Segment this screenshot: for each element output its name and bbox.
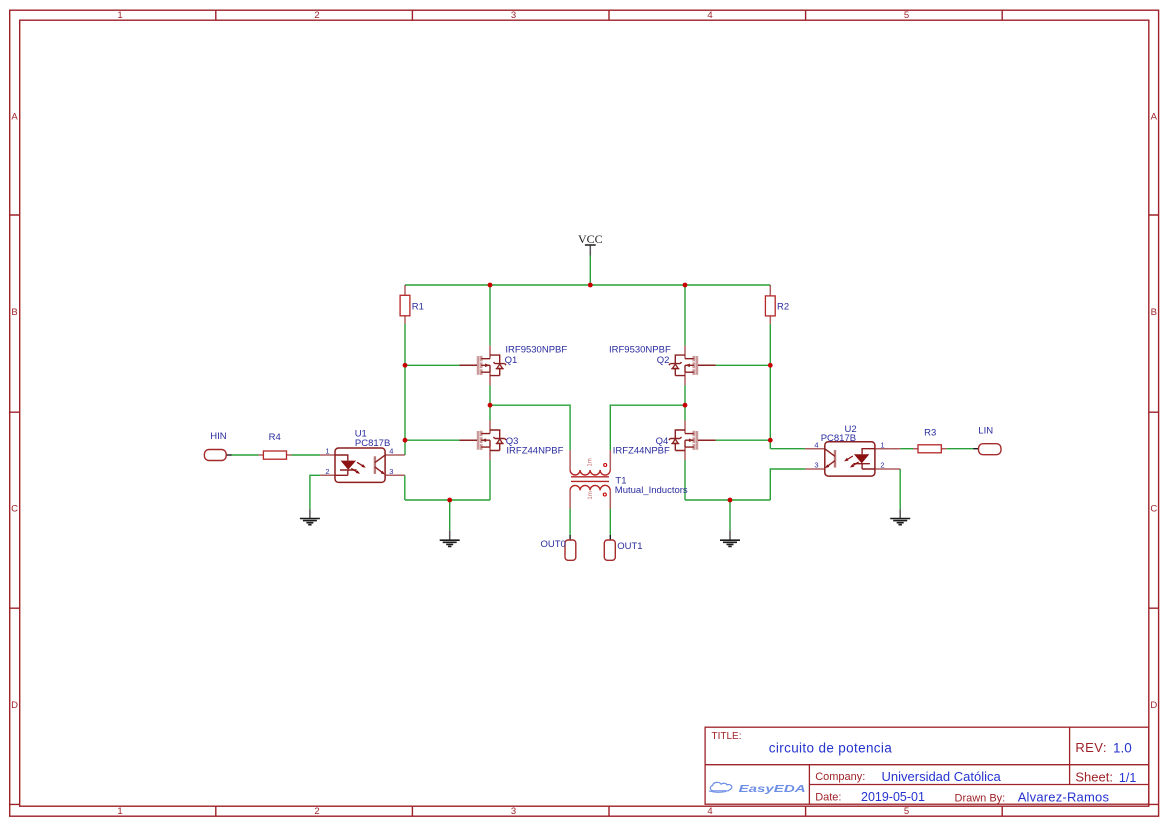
ruler ticks top (216, 10, 1002, 20)
svg-text:HIN: HIN (210, 431, 227, 442)
wire Q3 source down (489, 460, 491, 500)
wire U1 pin3 drop (404, 475, 406, 500)
ruler letters right (1150, 112, 1157, 711)
svg-text:5: 5 (904, 806, 909, 817)
connector pin OUT0 (541, 535, 576, 560)
svg-text:D: D (1150, 700, 1157, 711)
svg-text:2: 2 (325, 467, 329, 476)
wire U2 pin3 route (770, 469, 805, 500)
wire Q2 gate (716, 364, 771, 366)
Q3 labels (506, 436, 564, 457)
Q1 labels (505, 345, 568, 366)
ruler letters left (11, 112, 18, 711)
ground (U1 pin2) (300, 509, 320, 525)
svg-text:2: 2 (880, 461, 884, 470)
svg-text:3: 3 (511, 10, 516, 21)
svg-text:LIN: LIN (978, 426, 993, 437)
wire Q2 source to node (684, 385, 686, 405)
transistor Q2 IRF9530NPBF (P-MOSFET, mirrored) (669, 346, 716, 386)
wire T1 to OUT1 (609, 509, 611, 536)
wire R4 to U1 pin1 (292, 454, 321, 456)
connector pin OUT1 (604, 535, 642, 560)
svg-text:1/1: 1/1 (1119, 771, 1136, 785)
ruler ticks right (1149, 215, 1159, 804)
svg-text:Drawn By:: Drawn By: (955, 793, 1006, 805)
svg-text:1m: 1m (588, 458, 594, 466)
svg-text:1.0: 1.0 (1113, 740, 1132, 755)
U1 pin numbers (325, 447, 393, 476)
wire left mid ground stem (449, 500, 451, 530)
wire node to T1 left (490, 405, 570, 450)
svg-text:4: 4 (707, 806, 712, 817)
junction node VCC feed (588, 283, 593, 288)
ruler numbers bottom (117, 806, 909, 817)
svg-text:A: A (1151, 112, 1158, 123)
svg-text:IRFZ44NPBF: IRFZ44NPBF (613, 445, 670, 456)
wire Q2 drain drop (684, 285, 686, 346)
ground (U2 pin2) (890, 509, 910, 525)
svg-text:1: 1 (117, 806, 122, 817)
transistor Q3 IRFZ44NPBF (N-MOSFET) (460, 421, 507, 461)
svg-text:IRFZ44NPBF: IRFZ44NPBF (506, 445, 563, 456)
svg-text:PC817B: PC817B (821, 433, 856, 444)
U2 pin numbers (814, 440, 884, 469)
svg-text:4: 4 (814, 440, 818, 449)
op-amp U2 PC817B optocoupler (mirrored) (805, 442, 890, 476)
wire HIN to R4 (231, 454, 258, 456)
svg-text:B: B (1151, 307, 1157, 318)
svg-text:EasyEDA: EasyEDA (739, 784, 806, 795)
wire VCC stub (589, 255, 591, 285)
wire left rail R1 to U1 pin4 (404, 324, 406, 455)
wire right rail R2 down (769, 324, 771, 449)
wire Q1 drain drop (489, 285, 491, 346)
svg-text:Date:: Date: (815, 791, 841, 803)
junction node R1/Q1 gate (403, 363, 408, 368)
wire Q4 gate (716, 439, 771, 441)
wire T1 to OUT0 (569, 509, 571, 536)
wire Q3 gate (405, 439, 460, 441)
transistor Q1 IRF9530NPBF (P-MOSFET) (460, 346, 507, 386)
wire Q1 source to node (489, 385, 491, 405)
wire node to Q3 drain (489, 405, 491, 420)
svg-text:circuito de potencia: circuito de potencia (769, 741, 892, 756)
svg-text:1m: 1m (588, 491, 594, 499)
svg-text:OUT0: OUT0 (541, 539, 566, 550)
svg-text:VCC: VCC (578, 232, 603, 246)
svg-text:Company:: Company: (815, 771, 865, 783)
junction node Q4 gate / U2 pin4 (768, 438, 773, 443)
svg-text:5: 5 (904, 10, 909, 21)
svg-text:Mutual_Inductors: Mutual_Inductors (615, 485, 688, 496)
op-amp U1 PC817B optocoupler (320, 448, 405, 482)
vcc power symbol (578, 232, 603, 256)
ground (left mid) (440, 530, 460, 546)
svg-text:1: 1 (325, 447, 329, 456)
EasyEDA logo (709, 782, 806, 795)
connector pin HIN (204, 431, 231, 461)
svg-text:R4: R4 (269, 432, 281, 443)
svg-text:3: 3 (814, 461, 818, 470)
svg-text:C: C (1150, 504, 1157, 515)
U2 labels (821, 424, 857, 444)
wire top VCC rail (231, 255, 973, 535)
resistor R2 (765, 285, 789, 324)
junction node Q3 gate / U1 pin4 (403, 438, 408, 443)
svg-text:PC817B: PC817B (355, 438, 390, 449)
Q4 labels (613, 436, 670, 457)
resistor R3 (913, 427, 946, 453)
svg-text:R1: R1 (412, 302, 424, 313)
wire U1 pin2 route (310, 475, 320, 509)
wire bottom left (405, 499, 490, 501)
svg-text:REV:: REV: (1075, 740, 1106, 755)
junction node right source/ground (728, 498, 733, 503)
svg-text:TITLE:: TITLE: (712, 731, 742, 742)
wire node to T1 right (610, 405, 685, 450)
svg-text:B: B (11, 307, 17, 318)
svg-text:R2: R2 (777, 302, 789, 313)
svg-text:D: D (11, 700, 18, 711)
ground (right mid) (720, 530, 740, 546)
svg-text:3: 3 (511, 806, 516, 817)
ruler ticks bottom (216, 806, 1002, 816)
svg-text:Alvarez-Ramos: Alvarez-Ramos (1018, 790, 1110, 805)
svg-text:3: 3 (389, 467, 393, 476)
wire Q1 gate (405, 364, 460, 366)
junction node right half-bridge output (683, 403, 688, 408)
title block frame (705, 727, 1149, 804)
Q2 labels (609, 345, 671, 366)
svg-text:2: 2 (314, 806, 319, 817)
resistor R1 (400, 285, 424, 324)
svg-text:C: C (11, 504, 18, 515)
svg-text:4: 4 (707, 10, 712, 21)
svg-text:Q1: Q1 (505, 355, 518, 366)
ruler ticks left (10, 215, 20, 804)
svg-text:R3: R3 (924, 427, 936, 438)
svg-text:OUT1: OUT1 (617, 541, 642, 552)
connector pin LIN (973, 426, 1001, 455)
wire R3 to LIN (946, 448, 973, 450)
wire U2 pin2 route (899, 469, 901, 509)
transistor Q4 IRFZ44NPBF (N-MOSFET, mirrored) (669, 421, 716, 461)
wire bottom right (685, 499, 770, 501)
svg-text:Sheet:: Sheet: (1075, 770, 1113, 785)
resistor R4 (258, 432, 291, 459)
junction node Q2 drain at VCC rail (683, 283, 688, 288)
junction node R2/Q2 gate (768, 363, 773, 368)
svg-text:Universidad Católica: Universidad Católica (882, 769, 1002, 784)
wire right mid ground stem (729, 500, 731, 530)
wire U2 pin1 to R3 (900, 448, 913, 450)
svg-text:Q2: Q2 (657, 355, 670, 366)
U2 right pin lead extensions (890, 449, 900, 469)
wire Q4 source down (684, 460, 686, 500)
wire node to Q4 drain (684, 405, 686, 420)
junction node left source/ground (447, 498, 452, 503)
svg-text:A: A (11, 112, 18, 123)
transformer T1 (570, 450, 688, 509)
svg-text:2019-05-01: 2019-05-01 (861, 790, 925, 804)
wire right rail to U2 pin4 (770, 448, 805, 450)
svg-text:1: 1 (880, 440, 884, 449)
ruler numbers top (117, 10, 909, 21)
svg-text:1: 1 (117, 10, 122, 21)
U1 labels (355, 428, 391, 449)
junction node left half-bridge output (488, 403, 493, 408)
svg-text:2: 2 (314, 10, 319, 21)
junction node Q1 drain at VCC rail (488, 283, 493, 288)
